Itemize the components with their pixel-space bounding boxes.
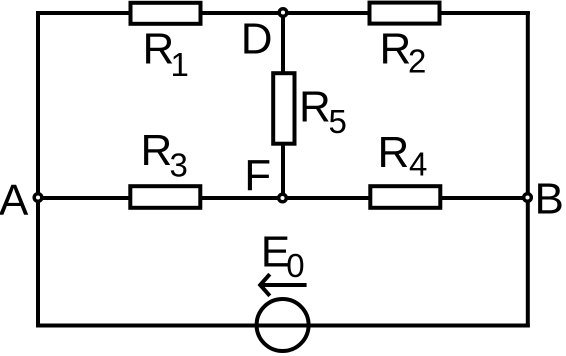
svg-text:D: D [241, 14, 273, 63]
current direction arrow [260, 274, 307, 296]
node B [524, 194, 532, 202]
svg-text:2: 2 [408, 43, 426, 80]
svg-text:F: F [244, 151, 271, 200]
svg-text:0: 0 [286, 247, 304, 284]
wire D-F [281, 13, 285, 198]
svg-text:4: 4 [409, 146, 427, 183]
node F [279, 194, 287, 202]
wire left side [36, 11, 40, 328]
voltage source E0 circle [257, 299, 309, 351]
resistor R4 [370, 128, 440, 208]
svg-text:R: R [299, 83, 331, 132]
svg-text:B: B [535, 175, 564, 224]
wire top [36, 11, 530, 15]
svg-text:R: R [141, 126, 173, 175]
svg-text:5: 5 [329, 103, 347, 140]
wire right side [526, 11, 530, 328]
svg-text:1: 1 [171, 46, 189, 83]
label E0 [261, 227, 305, 284]
resistor R5 [273, 73, 347, 144]
wire middle A-B [36, 196, 530, 200]
resistor R3 [130, 126, 200, 208]
svg-text:A: A [0, 176, 29, 225]
wire bottom [36, 324, 530, 328]
node D [279, 9, 287, 17]
svg-text:R: R [378, 128, 410, 177]
node A [34, 194, 42, 202]
svg-text:R: R [143, 25, 175, 74]
svg-text:3: 3 [170, 147, 188, 184]
resistor R2 [370, 3, 440, 80]
svg-text:R: R [380, 25, 412, 74]
resistor R1 [131, 3, 201, 83]
